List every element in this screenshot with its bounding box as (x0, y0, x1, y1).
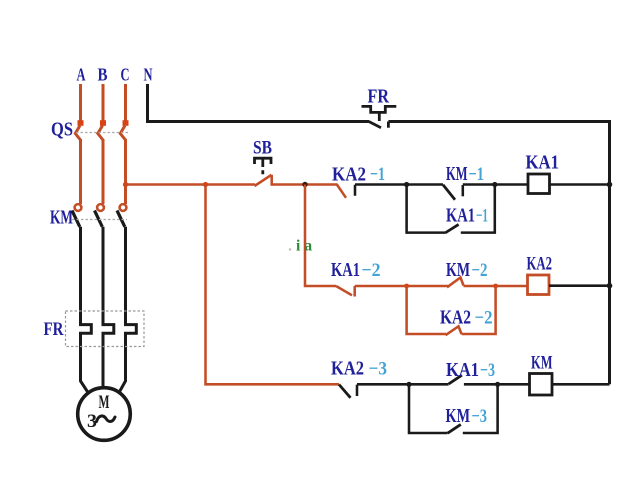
QS pole A terminal (78, 120, 84, 126)
svg-text:KA2: KA2 (527, 254, 553, 274)
svg-text:FR: FR (368, 87, 390, 108)
node rung3 branch right (495, 382, 500, 387)
QS linkage dashed (76, 132, 128, 134)
svg-text:A: A (77, 65, 86, 85)
svg-text:KA1: KA1 (526, 153, 560, 174)
KM pole C blade (117, 211, 125, 227)
node branch to rung3 (203, 182, 208, 187)
contact KA1-2 right tick (353, 286, 356, 297)
svg-text:−1: −1 (469, 164, 485, 185)
wire coil KA2 to rail (549, 284, 610, 287)
wire B QS to KM (102, 139, 105, 204)
wire control main from C tap to SB (126, 183, 256, 186)
svg-text:B: B (98, 65, 108, 85)
wire+heater FR phase C down to motor (119, 227, 137, 394)
svg-text:−1: −1 (476, 206, 488, 227)
svg-text:ia: ia (296, 238, 312, 255)
thermal contact FR bracket element (362, 106, 397, 112)
svg-text:M: M (99, 392, 110, 413)
branch wire KA2-2 left (407, 286, 446, 334)
svg-text:KM: KM (446, 164, 468, 185)
contact KA1-2 blade (336, 286, 352, 295)
branch wire KA2-2 right (462, 286, 496, 334)
wire KA1-2 to KM-2 (355, 285, 448, 288)
node rung3 branch left (406, 382, 411, 387)
svg-text:−2: −2 (475, 308, 493, 329)
svg-text:KA2: KA2 (440, 308, 471, 329)
branch wire KA1-1 right (461, 185, 495, 233)
wire coil KA1 to rail (550, 183, 610, 186)
wire neutral N drop and run to FR contact (148, 84, 370, 122)
KM pole B blade (95, 211, 103, 227)
contact KA2-3 right tick and wire (357, 384, 449, 396)
branch wire KM-3 left (409, 384, 448, 433)
svg-text:C: C (121, 65, 130, 85)
svg-text:−2: −2 (362, 260, 381, 281)
svg-text:SB: SB (253, 139, 272, 159)
contact KA2-2 blade (446, 326, 462, 335)
contact KA2-1 blade (337, 184, 347, 198)
wire KA1-3 to coil KM (464, 383, 530, 386)
svg-text:−3: −3 (369, 359, 388, 380)
svg-text:KA2: KA2 (332, 165, 366, 186)
svg-text:KM: KM (531, 353, 553, 374)
coil KM (530, 374, 553, 396)
svg-text:KA1: KA1 (446, 206, 475, 227)
wire FR contact to right rail (388, 120, 609, 123)
FR contact blade (369, 122, 381, 128)
contact KM-3 blade (448, 424, 461, 433)
wire+heater FR phase A down to motor (81, 227, 92, 394)
node rung2 branch right (493, 284, 498, 289)
svg-text:KA1: KA1 (331, 260, 360, 281)
svg-text:−3: −3 (480, 360, 495, 381)
branch wire KA1-1 left (407, 185, 445, 233)
node branch to rung2 (302, 182, 307, 187)
QS pole B blade (98, 126, 103, 141)
svg-text:FR: FR (44, 319, 64, 340)
coil KA1 (528, 174, 550, 194)
KM pole B terminal circle (97, 204, 104, 211)
node control tap on phase C (123, 182, 128, 187)
wire phase C drop to QS (124, 84, 127, 121)
contact KM-1 blade (443, 185, 455, 200)
svg-text:KM: KM (446, 260, 470, 281)
node rail rung1 (607, 182, 613, 188)
wire KM-1 to coil KA1 (463, 183, 528, 186)
QS pole A blade (75, 126, 80, 141)
motor tilde wave (97, 416, 116, 422)
wire SB to KA2-1 (272, 183, 337, 186)
wire A QS to KM (79, 139, 82, 204)
coil KA2 (528, 275, 550, 295)
KM linkage dashed (72, 219, 127, 221)
right rail vertical (608, 120, 611, 384)
FR contact right tick (387, 122, 390, 128)
contact KM-2 blade (447, 278, 464, 288)
svg-text:KA2: KA2 (331, 359, 364, 380)
contact KA2-3 blade (339, 385, 351, 398)
svg-text:KM: KM (446, 406, 471, 427)
wire phase A drop to QS (79, 84, 82, 121)
node rung1 branch left (404, 182, 409, 187)
wire C QS to KM (124, 139, 127, 204)
wire+heater FR phase B down to motor (103, 227, 114, 389)
contact KA2-1 right tick and wire to KM-1 (355, 185, 443, 196)
svg-text:−2: −2 (472, 260, 488, 281)
wire KM-2 to coil KA2 (464, 285, 528, 288)
node rail rung2 (607, 283, 613, 289)
KM pole A blade (72, 211, 80, 227)
watermark dot (289, 248, 291, 250)
wire rung3 drop from node (206, 185, 340, 385)
svg-text:−1: −1 (370, 164, 385, 185)
wire phase B drop to QS (102, 84, 105, 121)
branch wire KM-3 right (463, 384, 498, 433)
contact KA1-1 blade (445, 224, 459, 233)
svg-text:−3: −3 (472, 406, 488, 427)
FR contact stem (378, 112, 381, 121)
node rung2 branch left (404, 284, 409, 289)
thermal relay FR dashed box (66, 311, 145, 347)
svg-text:KA1: KA1 (446, 360, 479, 381)
QS pole B terminal (100, 120, 106, 126)
node rung1 branch right (492, 182, 497, 187)
svg-text:N: N (144, 65, 153, 85)
QS pole C terminal (123, 120, 129, 126)
contact KM-1 right tick (462, 185, 465, 196)
wire rung2 drop from node (305, 185, 336, 287)
pushbutton SB blade (255, 175, 272, 186)
svg-text:QS: QS (51, 119, 73, 141)
motor M circle (78, 388, 131, 441)
svg-text:KM: KM (50, 207, 73, 229)
pushbutton SB actuator (255, 158, 272, 174)
wire coil KM to rail (552, 383, 610, 386)
KM pole A terminal circle (75, 204, 82, 211)
QS pole C blade (120, 126, 125, 141)
contact KA1-3 blade (449, 375, 462, 384)
KM pole C terminal circle (120, 204, 127, 211)
